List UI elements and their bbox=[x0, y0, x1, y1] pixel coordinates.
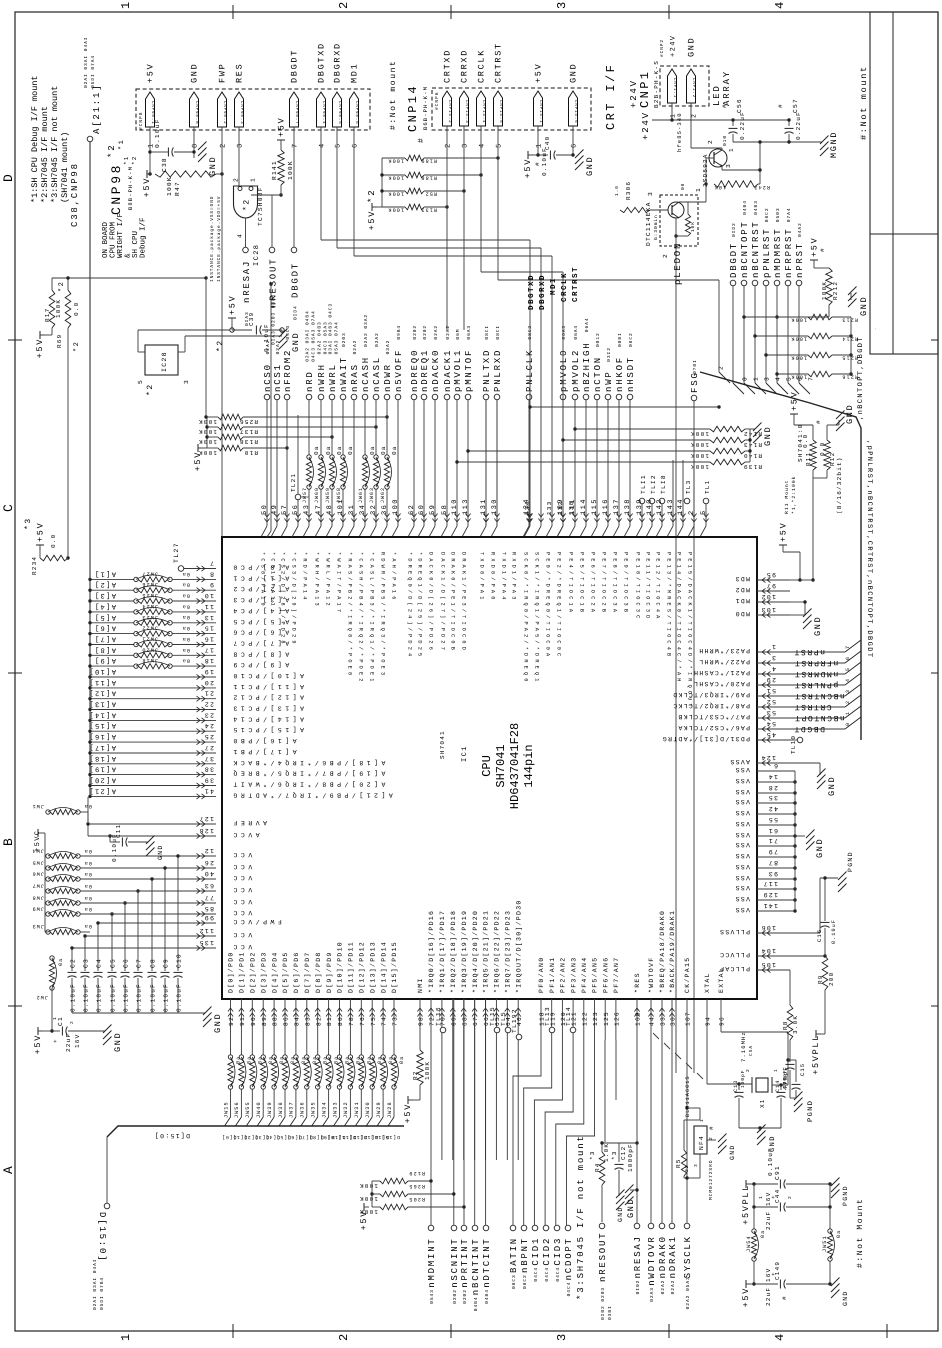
svg-text:PE12/TIOC4A: PE12/TIOC4A bbox=[655, 552, 661, 621]
svg-text:IC28: IC28 bbox=[253, 244, 261, 266]
node PNLCLK bbox=[525, 325, 535, 400]
resistor R129 100K bbox=[359, 1177, 442, 1196]
svg-text:R47: R47 bbox=[174, 181, 181, 196]
svg-text:R265: R265 bbox=[408, 1183, 425, 1189]
svg-text:0a: 0a bbox=[182, 658, 190, 664]
svg-text:TL16: TL16 bbox=[435, 1006, 442, 1026]
node nPRST bbox=[795, 222, 805, 383]
jumper JW7 0ohm bbox=[32, 883, 150, 894]
svg-text:CRT I/F: CRT I/F bbox=[604, 63, 618, 130]
svg-text:MD1: MD1 bbox=[734, 597, 750, 604]
svg-text:pMVOL1: pMVOL1 bbox=[453, 349, 463, 392]
ground at R12 bbox=[815, 404, 855, 440]
svg-text:CNP1.2: CNP1.2 bbox=[691, 78, 696, 98]
svg-text:nMDMRST: nMDMRST bbox=[773, 228, 783, 278]
svg-text:A[11]/PC11: A[11]/PC11 bbox=[230, 683, 304, 690]
svg-text:R143: R143 bbox=[743, 441, 762, 448]
jumper JW56 0ohm data bbox=[232, 1055, 252, 1140]
svg-text:JW29: JW29 bbox=[376, 1101, 382, 1118]
svg-text:31: 31 bbox=[348, 504, 356, 515]
svg-text:AVSS: AVSS bbox=[729, 758, 750, 765]
wire nWAIT to CPU bbox=[337, 400, 346, 537]
svg-text:40: 40 bbox=[204, 870, 214, 877]
svg-text:BLM11A601S: BLM11A601S bbox=[685, 1075, 691, 1117]
svg-text:C57: C57 bbox=[792, 98, 799, 113]
svg-text:*CASL/PB3/*IRQ1/*POE1: *CASL/PB3/*IRQ1/*POE1 bbox=[369, 552, 375, 685]
wire R69 down bbox=[67, 328, 69, 558]
power +5V at R11 bbox=[790, 391, 813, 440]
ground rail decoupling bbox=[72, 1007, 223, 1034]
svg-text:*2: *2 bbox=[146, 383, 155, 396]
svg-text:+5V: +5V bbox=[277, 117, 287, 137]
pin 63 VCC bbox=[150, 882, 252, 894]
pin 22 A[13]/PC13 bbox=[88, 700, 304, 713]
ground PGND crystal bbox=[794, 1092, 815, 1123]
svg-text:D[3]/PD3: D[3]/PD3 bbox=[260, 951, 267, 993]
svg-text:0a: 0a bbox=[347, 445, 354, 455]
svg-text:03A2: 03A2 bbox=[385, 340, 391, 355]
resistor R9 200 bbox=[817, 956, 835, 1034]
svg-text:A[13]/PC13: A[13]/PC13 bbox=[230, 705, 304, 712]
svg-text:0a: 0a bbox=[182, 614, 190, 620]
svg-text:03BI: 03BI bbox=[607, 1305, 613, 1320]
svg-text:CNP98: CNP98 bbox=[109, 163, 124, 215]
svg-text:15: 15 bbox=[204, 625, 214, 632]
pin 40 VCC bbox=[150, 870, 252, 882]
svg-text:3: 3 bbox=[237, 142, 245, 148]
pin 21 A[12]/PC12 bbox=[88, 689, 304, 702]
svg-text:MD2: MD2 bbox=[734, 586, 750, 593]
svg-text:*IRQ4/D[20]/PD20: *IRQ4/D[20]/PD20 bbox=[472, 910, 479, 993]
svg-text:6: 6 bbox=[773, 762, 778, 769]
svg-text:1: 1 bbox=[119, 1331, 133, 1341]
svg-text:36: 36 bbox=[381, 504, 389, 515]
svg-text:0a: 0a bbox=[182, 636, 190, 642]
node n5VOFF bbox=[394, 325, 404, 400]
wire nDACK0 to CPU bbox=[429, 400, 438, 537]
wire nRD to CPU bbox=[303, 400, 312, 537]
node nRESOUT bbox=[268, 247, 278, 345]
wire pMVOL1 to CPU bbox=[451, 400, 460, 537]
svg-text:SCK0/*IRQ0/PA2/*DREQ0: SCK0/*IRQ0/PA2/*DREQ0 bbox=[523, 552, 529, 685]
svg-text:02A2 03A2: 02A2 03A2 bbox=[363, 314, 369, 347]
svg-text:PE13/*MRES/TIOC4B: PE13/*MRES/TIOC4B bbox=[666, 552, 672, 659]
test point TL3 bbox=[684, 480, 692, 504]
svg-text:SH7041: SH7041 bbox=[439, 730, 446, 759]
svg-text:A[6]/PC6: A[6]/PC6 bbox=[230, 629, 289, 636]
svg-text:CRRXD: CRRXD bbox=[460, 49, 470, 83]
node nCTON bbox=[593, 332, 603, 400]
svg-text:nDACK0: nDACK0 bbox=[431, 349, 441, 392]
wire nRAS to CPU bbox=[348, 400, 357, 537]
svg-text:*2: *2 bbox=[57, 281, 66, 292]
svg-text:4: 4 bbox=[479, 142, 487, 148]
power +5V at R17 bbox=[35, 328, 52, 358]
CPU top edge pin labels bbox=[260, 552, 693, 710]
svg-text:1: 1 bbox=[845, 711, 851, 715]
svg-text:C149: C149 bbox=[774, 1261, 781, 1280]
resistor R143 100K bbox=[561, 437, 762, 448]
svg-text:DBGDT: DBGDT bbox=[290, 262, 300, 298]
svg-text:R188: R188 bbox=[420, 175, 437, 181]
pin 46 *IRQOUT/D[30]/PD30 bbox=[515, 899, 522, 1160]
svg-text:D[9]/PD9: D[9]/PD9 bbox=[326, 951, 333, 993]
svg-text:10: 10 bbox=[204, 592, 214, 599]
resistor R306 bbox=[614, 181, 668, 213]
connector pin CNP98.1 bbox=[146, 63, 156, 148]
svg-text:C91: C91 bbox=[774, 1165, 781, 1180]
capacitor C44 22uF 16V bbox=[752, 1184, 831, 1230]
pin 41 A[21]/PB9/*IRQ7/*ADTRG bbox=[88, 786, 393, 799]
svg-text:JW36: JW36 bbox=[300, 1101, 306, 1118]
test point TLI8 bbox=[659, 474, 667, 504]
svg-text:D[15:0]: D[15:0] bbox=[154, 1132, 190, 1139]
svg-text:DBGDT: DBGDT bbox=[290, 49, 300, 83]
svg-text:+5V: +5V bbox=[534, 63, 544, 83]
svg-text:D[6]/PD6: D[6]/PD6 bbox=[293, 951, 300, 993]
svg-text:JW25: JW25 bbox=[141, 592, 158, 598]
svg-text:GND: GND bbox=[827, 776, 837, 796]
svg-text:49: 49 bbox=[271, 504, 279, 515]
bus reset spine bbox=[700, 372, 861, 740]
svg-text:+5V: +5V bbox=[403, 1103, 413, 1123]
svg-text:0203: 0203 bbox=[341, 332, 347, 347]
resistor R17 100K bbox=[44, 281, 66, 328]
svg-text:135: 135 bbox=[198, 939, 214, 946]
svg-text:+24V: +24V bbox=[670, 35, 678, 57]
svg-text:GND: GND bbox=[842, 1290, 849, 1306]
svg-text:JW51: JW51 bbox=[822, 1235, 828, 1252]
pin 4 PA21/*CASHH bbox=[693, 662, 861, 678]
svg-text:08C3: 08C3 bbox=[511, 1274, 517, 1289]
svg-text:HD6437041F28: HD6437041F28 bbox=[508, 723, 522, 809]
wire nFROM2 to CPU bbox=[281, 400, 290, 537]
wire FWP pin99 bbox=[155, 404, 222, 406]
svg-text:DACK1/D[27]/PD27: DACK1/D[27]/PD27 bbox=[440, 552, 446, 653]
svg-text:RES: RES bbox=[235, 63, 245, 83]
svg-text:A[2]/PC2: A[2]/PC2 bbox=[230, 585, 289, 592]
node DBGDT out bbox=[290, 247, 300, 320]
svg-text:10K: 10K bbox=[714, 184, 726, 190]
svg-text:*RES: *RES bbox=[634, 972, 641, 993]
pin 80 D[10]/PD10 bbox=[337, 941, 344, 1055]
pin 18 A[9]/PC9 bbox=[88, 656, 289, 669]
node nCS1 bbox=[273, 340, 283, 400]
svg-text:D[8]/PD8: D[8]/PD8 bbox=[315, 951, 322, 993]
node FSG bbox=[690, 359, 700, 1073]
svg-text:34: 34 bbox=[359, 504, 367, 515]
svg-text:nDREQ1: nDREQ1 bbox=[420, 349, 430, 392]
svg-text:PE14/DACK0/TIOC4C/*AH: PE14/DACK0/TIOC4C/*AH bbox=[676, 552, 682, 685]
svg-text:123: 123 bbox=[592, 1011, 599, 1026]
capacitor C7 0.10uF bbox=[134, 891, 151, 1013]
svg-text:99: 99 bbox=[204, 914, 214, 921]
svg-text:D[0]/PD0: D[0]/PD0 bbox=[228, 951, 235, 993]
ground PGND C91 bbox=[828, 1178, 849, 1207]
connector pin CNP98.4 bbox=[317, 42, 327, 148]
node nBCNTINT bbox=[471, 999, 481, 1311]
pin 118 PF0/AN0 bbox=[538, 957, 545, 1040]
svg-text:5: 5 bbox=[496, 142, 504, 148]
svg-text:100K: 100K bbox=[387, 191, 404, 197]
capacitor C3 0.10uF bbox=[81, 936, 151, 1013]
svg-text:A[12]/PC12: A[12]/PC12 bbox=[230, 694, 304, 701]
svg-text:JW30: JW30 bbox=[365, 1101, 371, 1118]
AND gate IC28 TC7SH08F bbox=[233, 177, 265, 266]
svg-text:0ID4: 0ID4 bbox=[293, 305, 299, 320]
svg-text:JW8: JW8 bbox=[32, 895, 44, 901]
node nDWR bbox=[383, 340, 393, 400]
svg-text:R11: R11 bbox=[805, 452, 812, 466]
svg-text:*2: *2 bbox=[243, 198, 252, 211]
svg-text:DRAK1/PE3/TIOC0D: DRAK1/PE3/TIOC0D bbox=[461, 552, 467, 653]
wire rnet common bbox=[850, 317, 852, 374]
svg-text:*1: *1 bbox=[123, 155, 130, 165]
wires test point columns bbox=[636, 460, 709, 537]
resistor R52 100K bbox=[382, 188, 466, 196]
svg-text:44: 44 bbox=[649, 1016, 656, 1026]
svg-text:nFROM2: nFROM2 bbox=[283, 349, 293, 392]
test point TL13 bbox=[544, 1006, 555, 1033]
label C38,CNP98 bbox=[70, 162, 80, 227]
svg-text:+5V: +5V bbox=[523, 158, 533, 178]
svg-text:A[20]: A[20] bbox=[88, 776, 116, 785]
capacitor C16 0.10uF bbox=[816, 876, 837, 957]
svg-text:2: 2 bbox=[691, 113, 698, 118]
svg-text:100K: 100K bbox=[287, 160, 294, 180]
svg-text:100K: 100K bbox=[821, 281, 828, 300]
svg-text:26: 26 bbox=[204, 859, 214, 866]
capacitor C91 0.10uF bbox=[752, 1147, 830, 1188]
jumper JW36 0ohm data bbox=[297, 1055, 317, 1140]
svg-text:*DREQ0/D[24]/PD24: *DREQ0/D[24]/PD24 bbox=[407, 552, 413, 659]
capacitor C39 bbox=[216, 312, 284, 352]
svg-text:R69: R69 bbox=[56, 334, 63, 348]
svg-text:06A3: 06A3 bbox=[466, 325, 472, 340]
capacitor 470pF bbox=[782, 1064, 796, 1098]
connector pin CNP98.5 bbox=[333, 42, 343, 148]
svg-text:FWP: FWP bbox=[218, 63, 228, 83]
svg-text:11: 11 bbox=[204, 603, 214, 610]
svg-text:R243: R243 bbox=[753, 184, 770, 190]
svg-text:nBCNTOPT: nBCNTOPT bbox=[794, 713, 845, 722]
node nDREQ0 bbox=[410, 325, 420, 400]
svg-text:08C2: 08C2 bbox=[764, 207, 770, 222]
node nRESAJ bbox=[242, 247, 252, 326]
svg-text:100K: 100K bbox=[55, 299, 62, 318]
svg-text:VSS: VSS bbox=[734, 766, 750, 773]
svg-text:R205: R205 bbox=[408, 1196, 425, 1202]
svg-text:R306: R306 bbox=[625, 181, 632, 200]
svg-text:A[11]: A[11] bbox=[88, 678, 116, 687]
ferrite NF4 BLM11A601S bbox=[675, 1075, 715, 1200]
svg-text:PGND: PGND bbox=[807, 1100, 815, 1122]
svg-text:GND: GND bbox=[157, 844, 164, 860]
svg-text:*3:SH7045 I/F not mount: *3:SH7045 I/F not mount bbox=[576, 1134, 586, 1300]
svg-text:+: + bbox=[770, 1271, 777, 1276]
resistor R133 100K bbox=[382, 204, 449, 212]
svg-text:010: 010 bbox=[722, 135, 728, 146]
ground at C149 bbox=[831, 1278, 849, 1307]
pin 98 NMI bbox=[417, 977, 424, 1050]
svg-text:1: 1 bbox=[119, 0, 133, 9]
svg-text:58: 58 bbox=[441, 504, 449, 515]
svg-text:R141: R141 bbox=[271, 160, 278, 180]
pin 107 CK/PA15 bbox=[684, 957, 691, 1026]
svg-text:nDREQ0: nDREQ0 bbox=[410, 349, 420, 392]
node pMVOL0 bbox=[559, 325, 569, 400]
svg-text:0.10uF: 0.10uF bbox=[70, 983, 77, 1012]
svg-text:PGND: PGND bbox=[842, 1185, 849, 1206]
jumper JW31 0ohm data bbox=[348, 1055, 372, 1140]
svg-text:TLI2: TLI2 bbox=[650, 474, 657, 494]
svg-text:33: 33 bbox=[660, 1016, 667, 1026]
svg-text:A[17]/PB1: A[17]/PB1 bbox=[230, 748, 297, 755]
svg-text:R137: R137 bbox=[239, 428, 258, 435]
ground at R142 net bbox=[745, 423, 773, 463]
node nCDOPT bbox=[564, 1225, 574, 1296]
node nWDTOVR bbox=[647, 1223, 657, 1302]
svg-text:0.0: 0.0 bbox=[50, 534, 57, 548]
svg-text:19: 19 bbox=[204, 668, 214, 675]
wire pLEDON bbox=[673, 218, 683, 1073]
svg-text:68: 68 bbox=[461, 1016, 468, 1026]
svg-text:107: 107 bbox=[685, 1011, 692, 1026]
wire DBGDT from CNP98.7 bbox=[293, 127, 295, 247]
capacitor C4 0.10uF bbox=[94, 923, 151, 1013]
svg-text:R133: R133 bbox=[420, 207, 437, 213]
connector pin CNP98.6 bbox=[350, 63, 360, 148]
pin 23 A[14]/PC14 bbox=[88, 710, 304, 723]
svg-text:CNP14.4: CNP14.4 bbox=[481, 100, 486, 123]
resistor R10 100K bbox=[198, 445, 289, 456]
test point TL27 bbox=[173, 542, 184, 571]
wire branch pMVOL1 right bbox=[455, 460, 710, 463]
svg-text:12: 12 bbox=[204, 847, 214, 854]
jumper JW29 0ohm data bbox=[370, 1055, 394, 1140]
svg-text:RXD1/PA3: RXD1/PA3 bbox=[511, 552, 517, 603]
svg-text:*RD/PA14: *RD/PA14 bbox=[302, 552, 308, 603]
svg-text:A[9]/PC9: A[9]/PC9 bbox=[230, 661, 289, 668]
pin 33 *BREQ/PA18/DRAK0 bbox=[659, 910, 666, 1026]
pin 20 A[11]/PC11 bbox=[88, 678, 304, 691]
svg-text:7: 7 bbox=[808, 376, 815, 381]
svg-text:22: 22 bbox=[204, 701, 214, 708]
resistor R140 100K bbox=[690, 448, 762, 459]
svg-text:C13: C13 bbox=[733, 1080, 739, 1092]
svg-text:VSS: VSS bbox=[734, 863, 750, 870]
svg-text:CNP1.1: CNP1.1 bbox=[672, 78, 677, 98]
svg-text:100K: 100K bbox=[690, 463, 709, 470]
svg-text:45: 45 bbox=[766, 731, 776, 738]
svg-text:pLEDON: pLEDON bbox=[673, 242, 683, 285]
svg-text:A[20]/PB8/*IRQ6/*WAIT: A[20]/PB8/*IRQ6/*WAIT bbox=[230, 781, 385, 788]
wire node 271 vertical bbox=[267, 282, 273, 537]
svg-text:VCC: VCC bbox=[230, 931, 252, 938]
svg-text:XTAL: XTAL bbox=[704, 972, 711, 993]
pin 126 PF7/AN7 bbox=[613, 957, 620, 1040]
svg-text:1: 1 bbox=[759, 1195, 764, 1199]
svg-text:1: 1 bbox=[771, 643, 776, 650]
svg-text:#CNP8: #CNP8 bbox=[138, 112, 144, 130]
svg-text:06A4: 06A4 bbox=[584, 317, 590, 332]
ground at CNP98.8 bbox=[192, 127, 218, 176]
svg-text:JW57: JW57 bbox=[302, 487, 308, 503]
svg-text:PNLTXD: PNLTXD bbox=[482, 349, 492, 392]
capacitor C13 100pF bbox=[733, 1070, 746, 1128]
svg-text:100pF: 100pF bbox=[740, 1070, 746, 1088]
svg-text:R2: R2 bbox=[412, 1070, 419, 1080]
svg-text:CPU: CPU bbox=[480, 755, 494, 777]
connector pin CNP98.3 bbox=[235, 63, 245, 148]
capacitor C15 bbox=[786, 1058, 806, 1098]
svg-text:8: 8 bbox=[209, 570, 214, 577]
svg-text:140: 140 bbox=[646, 498, 654, 515]
wire EXTAL route bbox=[721, 1010, 788, 1085]
svg-text:CID1: CID1 bbox=[531, 1237, 541, 1266]
node CID2 bbox=[542, 1225, 552, 1281]
wire PF6 PF7 down bbox=[605, 1040, 616, 1142]
svg-text:VCC: VCC bbox=[230, 886, 252, 893]
wires route bends bbox=[653, 1033, 703, 1079]
svg-text:04C4: 04C4 bbox=[533, 1267, 539, 1282]
svg-text:59: 59 bbox=[429, 504, 437, 515]
svg-text:138: 138 bbox=[624, 498, 632, 515]
svg-text:GND: GND bbox=[113, 1032, 123, 1052]
svg-text:PA9/*IRQ3/TCLKD: PA9/*IRQ3/TCLKD bbox=[672, 691, 750, 698]
svg-text:*IRQ7/D[23]/PD23: *IRQ7/D[23]/PD23 bbox=[505, 910, 512, 993]
svg-text:MGND: MGND bbox=[829, 131, 839, 158]
node nMDMINT bbox=[427, 1160, 437, 1304]
svg-text:nBPNT: nBPNT bbox=[520, 1237, 530, 1273]
node CID1 bbox=[531, 1225, 541, 1281]
svg-text:CRCLK: CRCLK bbox=[477, 49, 487, 83]
svg-text:R8: R8 bbox=[782, 1020, 789, 1030]
svg-text:VSS: VSS bbox=[734, 874, 750, 881]
svg-text:TL13: TL13 bbox=[544, 1006, 551, 1026]
svg-text:23: 23 bbox=[204, 711, 214, 718]
svg-text:B6B-PH-K-M: B6B-PH-K-M bbox=[422, 86, 429, 130]
svg-text:1.0K: 1.0K bbox=[603, 1143, 610, 1162]
svg-text:4: 4 bbox=[237, 233, 244, 238]
node nDRAK0 bbox=[658, 1223, 668, 1294]
svg-text:PA6/*CS2/TCLKA: PA6/*CS2/TCLKA bbox=[677, 724, 750, 731]
svg-text:C1: C1 bbox=[57, 1016, 64, 1026]
svg-text:+: + bbox=[52, 1038, 59, 1043]
svg-text:JW6: JW6 bbox=[32, 871, 44, 877]
svg-text:*IRQOUT/D[30]/PD30: *IRQOUT/D[30]/PD30 bbox=[515, 899, 522, 993]
svg-text:A[9]: A[9] bbox=[94, 656, 116, 665]
svg-text:22: 22 bbox=[684, 1165, 690, 1172]
wire Q1 emitter to C57 bbox=[722, 140, 762, 170]
svg-text:nCS1: nCS1 bbox=[273, 363, 283, 392]
svg-text:C6: C6 bbox=[123, 958, 130, 968]
svg-text:2: 2 bbox=[337, 1331, 351, 1341]
svg-text:+5V: +5V bbox=[35, 338, 45, 358]
pin 85 VCC bbox=[150, 905, 252, 917]
power +5V at NMI bbox=[403, 1096, 420, 1123]
svg-text:127: 127 bbox=[198, 815, 214, 822]
svg-text:A[21:1]: A[21:1] bbox=[92, 84, 102, 134]
pin 72 *IRQ0/D[16]/PD16 bbox=[428, 910, 435, 1160]
svg-text:0a: 0a bbox=[58, 958, 64, 966]
svg-text:97: 97 bbox=[766, 582, 776, 589]
capacitor C12 1000pF bbox=[600, 1141, 636, 1218]
svg-text:131: 131 bbox=[480, 498, 488, 515]
node CID3 bbox=[553, 1225, 563, 1281]
svg-text:#: # bbox=[708, 1125, 715, 1130]
jumper JW37 0ohm data bbox=[287, 1055, 307, 1140]
